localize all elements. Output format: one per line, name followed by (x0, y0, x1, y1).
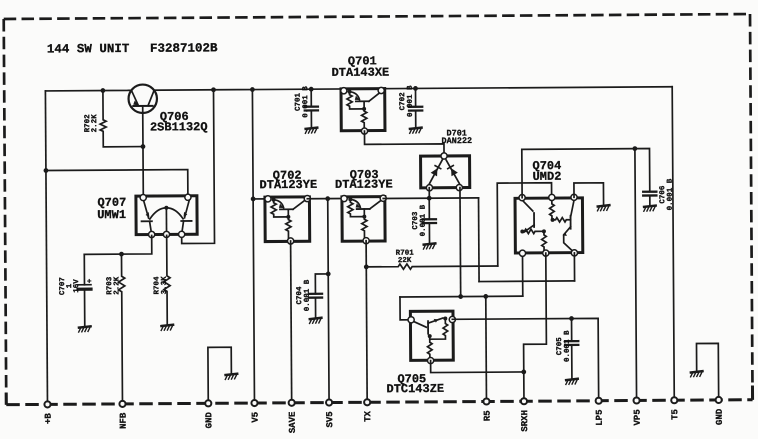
junction R703/NFB tap (119, 252, 124, 257)
junction R702 top on +B rail (100, 88, 105, 93)
transistor Q706 (128, 84, 157, 113)
wire Q705 base rail to LP5 (452, 318, 598, 401)
wire Q706 base down to Q707 (142, 112, 145, 198)
wire y297 rail (400, 295, 523, 298)
wire SV5 link Q702-Q703 (307, 198, 344, 200)
connector pin SAVE (288, 400, 298, 434)
svg-text:TX: TX (363, 410, 373, 421)
svg-text:0.001 B: 0.001 B (419, 204, 428, 236)
label R703 2.2K (105, 276, 121, 295)
label R702 value 2.2K (83, 114, 99, 133)
svg-text:0.001 B: 0.001 B (303, 279, 312, 311)
svg-text:SV5: SV5 (325, 411, 335, 427)
label C707 1 16V (58, 277, 81, 295)
connector pin R5 (482, 398, 492, 421)
connector pin GND (715, 397, 725, 425)
diode array D701 DAN222 (421, 153, 470, 191)
digital transistor Q702 DTA123YE (265, 195, 311, 244)
connector pin NFB (118, 401, 128, 429)
wire C703 corner down to y282 rail (478, 198, 481, 282)
label C705 (555, 330, 572, 362)
wire T5 vertical from +B rail corner (672, 87, 674, 400)
wire Q705 input corner (400, 297, 409, 320)
wire y282 rail to Q704 (479, 280, 574, 283)
ground Q704 right (597, 205, 609, 211)
svg-text:0.001 B: 0.001 B (563, 330, 572, 362)
connector pin GND (204, 400, 214, 428)
ground C701 (305, 128, 317, 134)
connector pin TX (363, 399, 373, 422)
junction R5 tap (483, 294, 488, 299)
ground C705 (566, 379, 578, 385)
svg-text:+: + (87, 278, 92, 286)
wire D701 right leg down (459, 188, 462, 297)
wire SRXH vertical (523, 372, 525, 401)
junction R701 tap on TX (364, 264, 369, 269)
ground C702 (410, 128, 422, 134)
label C703 (411, 204, 428, 236)
resistor R702 (100, 90, 143, 147)
svg-text:SAVE: SAVE (288, 411, 298, 433)
svg-text:DTC143ZE: DTC143ZE (386, 382, 444, 396)
junction SV5 (325, 196, 330, 201)
capacitor C701 (310, 89, 312, 127)
junction C703 / D701 anode (427, 196, 432, 201)
svg-text:DTA123YE: DTA123YE (335, 178, 393, 192)
svg-text:144 SW UNIT: 144 SW UNIT (47, 42, 130, 57)
svg-text:0.001 B: 0.001 B (301, 86, 310, 118)
ground GND right (691, 371, 703, 377)
connector pin LP5 (595, 398, 605, 426)
digital transistor Q703 DTA123YE (341, 195, 387, 244)
svg-text:T5: T5 (670, 409, 680, 420)
connector pin +B (43, 401, 53, 424)
svg-text:0.001 B: 0.001 B (406, 85, 415, 117)
digital transistor Q705 DTC143ZE (408, 311, 456, 364)
capacitor C704 (315, 274, 328, 317)
wire R5 vertical (485, 296, 488, 401)
svg-text:16V: 16V (72, 279, 81, 293)
junction C702 on +B rail (413, 86, 418, 91)
svg-text:2SB1132Q: 2SB1132Q (150, 120, 208, 134)
resistor R701 (366, 263, 498, 269)
junction C701 on +B rail (309, 87, 314, 92)
wire VP5 vertical (635, 149, 637, 401)
wire TX vertical (366, 241, 367, 403)
label C706 (658, 178, 675, 210)
wire Q707 top-right branch (46, 170, 188, 196)
wire Q704 bottom-left leg (521, 253, 523, 296)
digital transistor Q701 DTA143XE (341, 87, 385, 134)
svg-text:GND: GND (204, 412, 214, 429)
junction x214 riser on +B rail (211, 87, 216, 92)
resistor R704 (164, 235, 171, 324)
wire SAVE vertical (291, 241, 292, 403)
label C704 (295, 279, 312, 311)
connector pin T5 (670, 397, 680, 420)
junction on +B vertical at Q707 emitter branch (44, 168, 49, 173)
wire SV5 vertical (328, 199, 329, 403)
junction C705 tap (569, 316, 574, 321)
junction node Q706 base / R702 (141, 144, 146, 149)
wire Q704 bottom-right leg (573, 253, 575, 281)
capacitor C705 (571, 319, 573, 379)
svg-text:UMD2: UMD2 (533, 170, 562, 184)
connector pin SRXH (520, 398, 530, 432)
connector pin SV5 (325, 399, 335, 427)
connector pin V5 (250, 400, 260, 423)
junction SRXH (521, 370, 526, 375)
wire Q701 collector to D701 (364, 131, 444, 154)
label C701 (294, 86, 311, 118)
svg-text:2.2K: 2.2K (112, 276, 121, 295)
capacitor C707 electrolytic (83, 254, 85, 326)
ground C704 (310, 318, 322, 324)
svg-text:NFB: NFB (119, 412, 129, 429)
svg-text:LP5: LP5 (595, 410, 605, 426)
svg-text:DTA123YE: DTA123YE (259, 178, 317, 192)
wire R701 to Q704 base riser (497, 183, 552, 266)
wire GND right pin riser (696, 343, 718, 400)
svg-text:UMW1: UMW1 (97, 208, 126, 222)
svg-text:3.3K: 3.3K (160, 276, 169, 295)
wire +B top rail (45, 87, 672, 91)
junction D701 leg on y297 rail (458, 294, 463, 299)
label C702 (398, 85, 415, 117)
svg-text:+B: +B (44, 413, 54, 424)
ground R704 (161, 325, 173, 331)
svg-text:VP5: VP5 (633, 409, 643, 425)
junction VP5 tap (632, 146, 637, 151)
svg-text:22K: 22K (398, 256, 412, 265)
wire V5 to Q702 top-left (253, 198, 266, 200)
wire D701 left leg (428, 188, 430, 198)
svg-text:DTA143XE: DTA143XE (332, 66, 390, 80)
capacitor C706 (649, 196, 651, 206)
wire Q704 top-right to ground (574, 183, 604, 205)
junction C704 tap (326, 272, 331, 277)
svg-text:SRXH: SRXH (520, 410, 530, 432)
svg-text:0.001 B: 0.001 B (666, 178, 675, 210)
wire Q704 top-left to C706 rail (522, 149, 650, 198)
ground C707 (79, 326, 91, 332)
svg-text:GND: GND (715, 408, 725, 425)
connector edge (board bottom with pins) (6, 400, 752, 405)
connector pin VP5 (633, 397, 643, 425)
wire Q704 bottom-center to SRXH (523, 253, 547, 372)
wire GND left pin riser (208, 347, 232, 403)
wire Q707 bottom-left to C707/R703 rail (84, 236, 152, 255)
wire riser to Q707 bottom-right (181, 90, 215, 244)
junction V5 to Q702 (251, 197, 256, 202)
capacitor C702 (414, 88, 416, 127)
svg-text:DAN222: DAN222 (442, 136, 473, 146)
wire Q705 collector to SRXH (431, 360, 524, 373)
svg-text:F3287102B: F3287102B (150, 41, 218, 55)
junction V5 riser on +B rail (250, 87, 255, 92)
transistor array Q707 UMW1 (136, 194, 197, 238)
svg-text:V5: V5 (251, 412, 261, 423)
svg-text:2.2K: 2.2K (90, 114, 99, 133)
wire V5 vertical (252, 90, 254, 403)
label R704 3.3K (152, 276, 169, 295)
ground C703 (423, 243, 435, 249)
capacitor C703 (428, 198, 430, 243)
ground C706 (644, 206, 656, 212)
resistor R703 (118, 254, 125, 404)
transistor array Q704 UMD2 (515, 194, 583, 256)
ground GND left (225, 374, 237, 380)
wire Q703 collector rail to C703/D701 (383, 197, 478, 200)
svg-text:R5: R5 (483, 410, 493, 421)
wire +B left vertical (45, 91, 47, 404)
